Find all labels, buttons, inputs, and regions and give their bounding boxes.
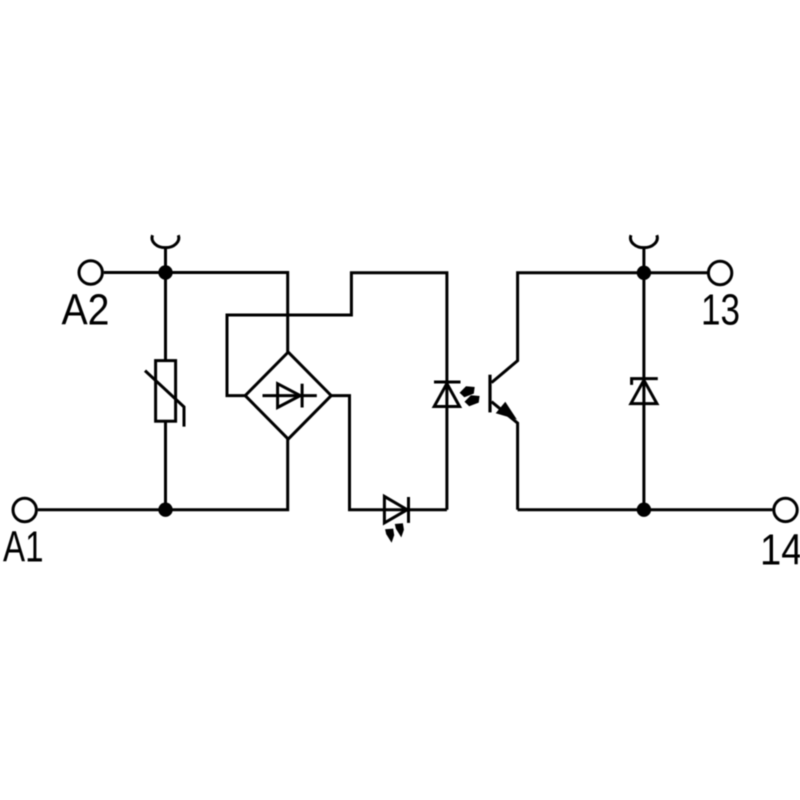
svg-text:A2: A2: [62, 286, 110, 335]
svg-text:13: 13: [701, 286, 740, 335]
svg-text:14: 14: [760, 526, 800, 575]
svg-text:A1: A1: [3, 522, 44, 571]
